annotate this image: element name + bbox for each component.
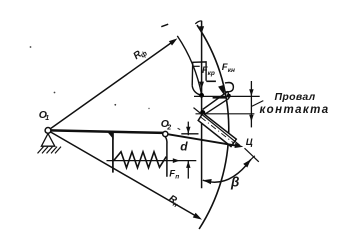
svg-text:1: 1 — [45, 115, 49, 122]
svg-text:Ц: Ц — [246, 137, 253, 148]
svg-text:кн: кн — [228, 67, 235, 74]
svg-text:β: β — [230, 175, 239, 190]
svg-text:контакта: контакта — [259, 104, 329, 116]
svg-text:d: d — [180, 140, 188, 154]
svg-text:кр: кр — [208, 70, 215, 77]
svg-text:п: п — [175, 174, 179, 181]
svg-text:Провал: Провал — [275, 91, 316, 103]
svg-text:2: 2 — [166, 124, 171, 131]
